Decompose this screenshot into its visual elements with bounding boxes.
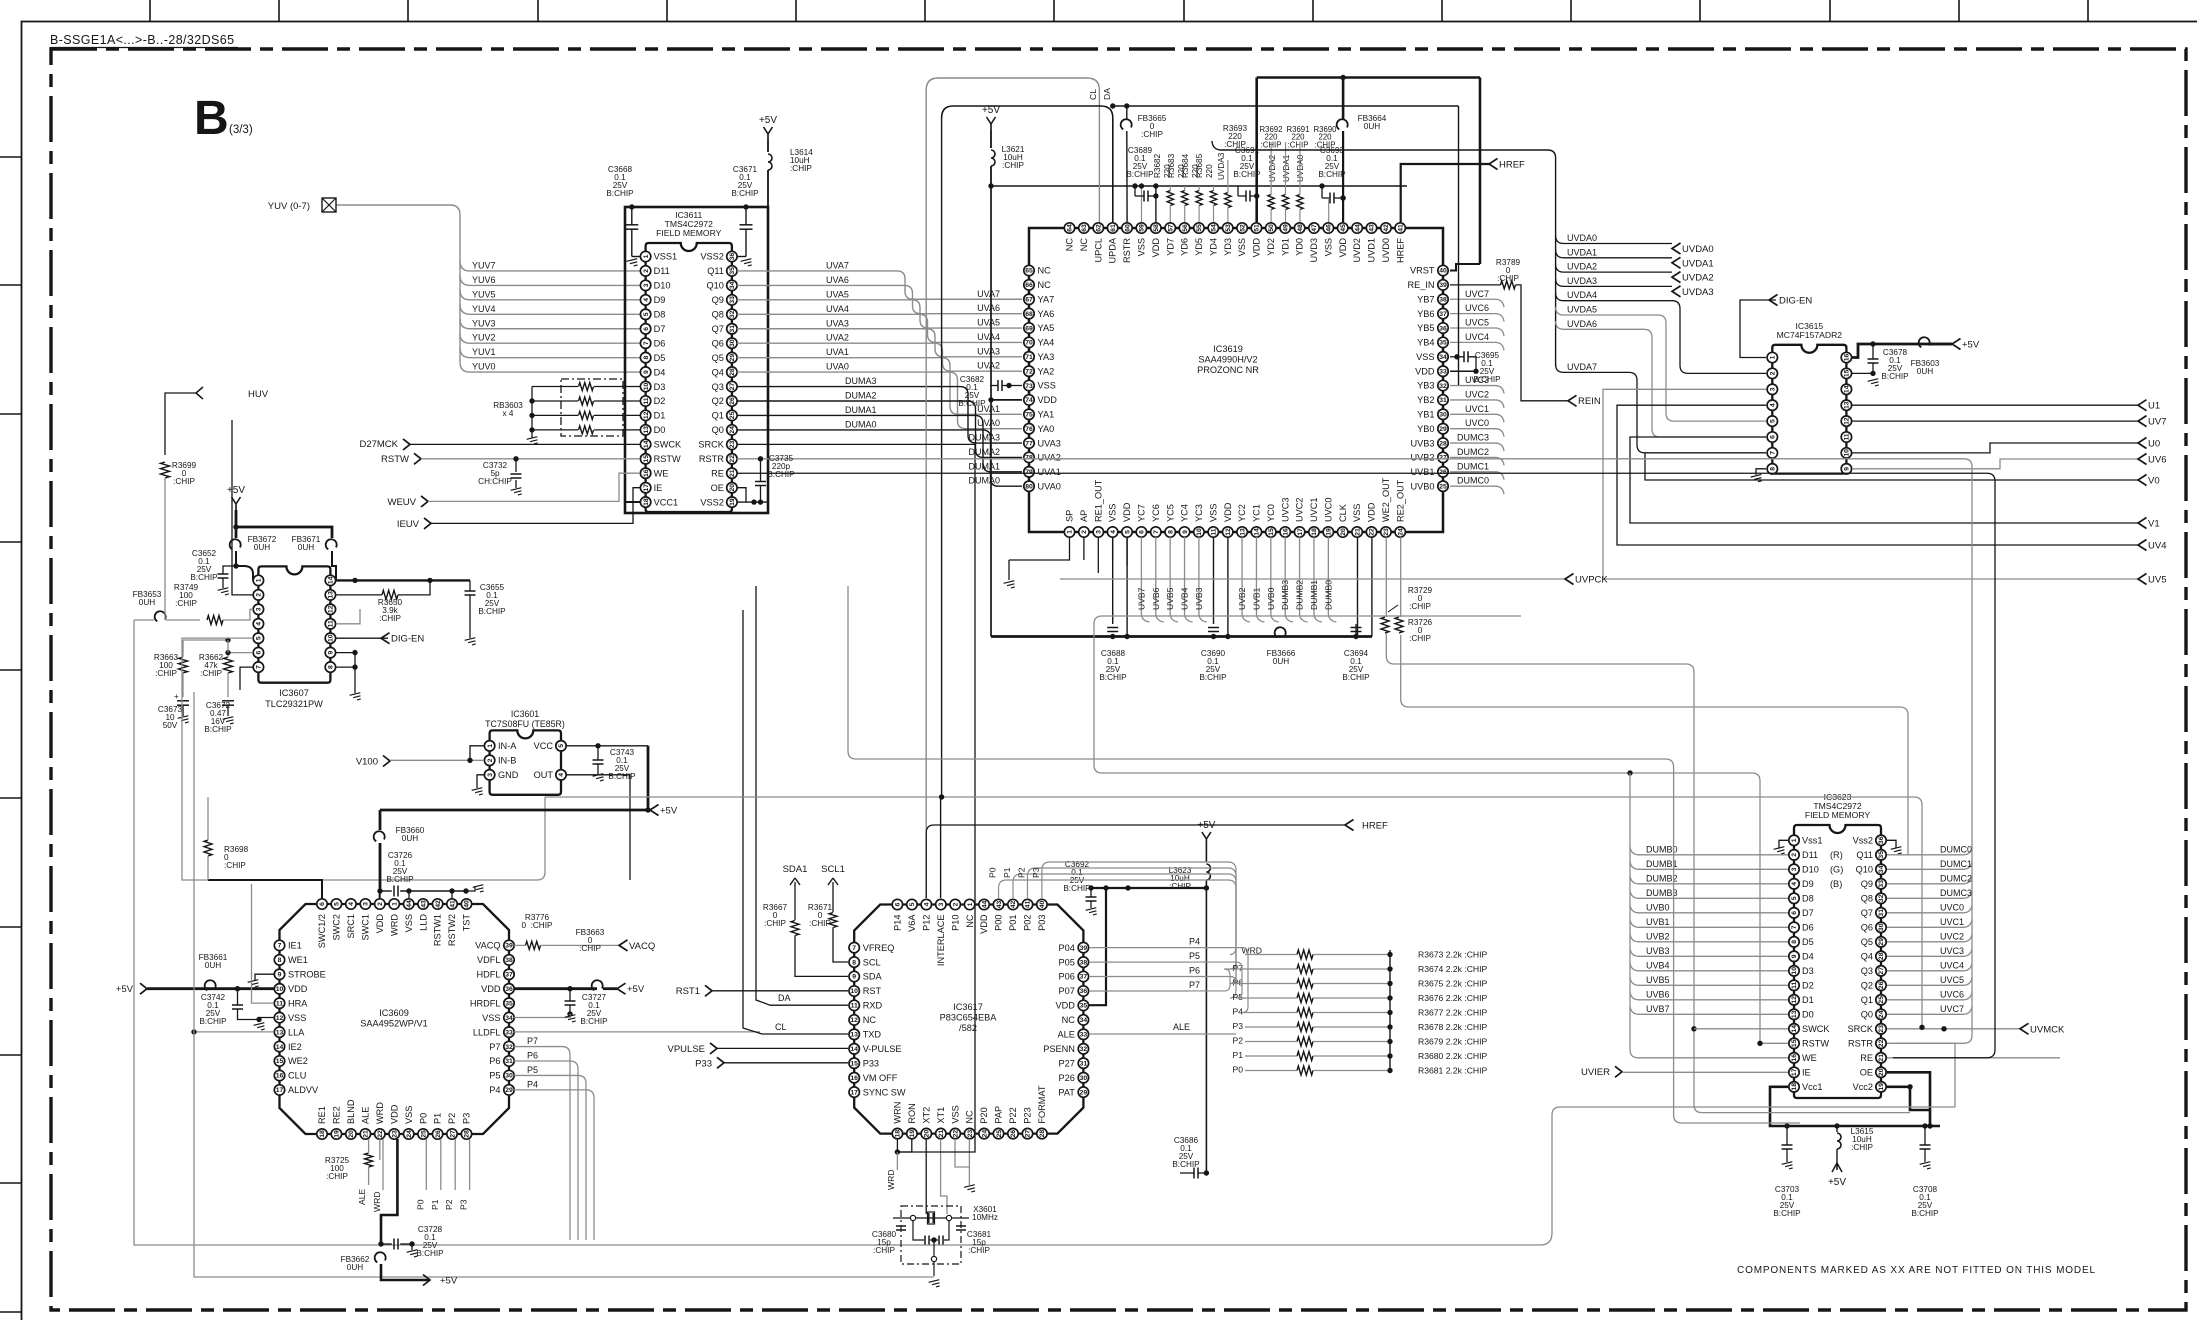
svg-text:P6: P6 — [527, 1051, 538, 1061]
svg-text:23: 23 — [1878, 1025, 1885, 1033]
svg-text:UVA7: UVA7 — [826, 260, 849, 270]
svg-text:70: 70 — [1025, 340, 1033, 347]
svg-text:3: 3 — [643, 283, 650, 287]
svg-text:33: 33 — [505, 1029, 513, 1036]
svg-text:DUMB0: DUMB0 — [1323, 580, 1333, 610]
ground IC3619 pins 1-3 — [1009, 537, 1127, 580]
svg-text:NC: NC — [863, 1015, 877, 1025]
svg-text:4: 4 — [924, 902, 931, 906]
wire OUT — [566, 775, 630, 866]
svg-text:AP: AP — [1079, 510, 1089, 522]
svg-text:UVDA3: UVDA3 — [1682, 287, 1714, 298]
resistor R3690 220 — [1296, 125, 1337, 222]
svg-text:D2: D2 — [654, 396, 666, 406]
capacitor C3728 — [381, 1225, 444, 1258]
svg-text:65: 65 — [1025, 268, 1033, 275]
svg-text:UVC4: UVC4 — [1465, 332, 1489, 342]
capacitor C3694 — [1342, 624, 1370, 682]
svg-text:1: 1 — [643, 254, 650, 258]
svg-text:B:CHIP: B:CHIP — [1773, 1209, 1801, 1218]
svg-text:49: 49 — [1282, 224, 1289, 232]
resistor R3684 220 — [1181, 153, 1202, 222]
svg-text:UVDA0: UVDA0 — [1682, 244, 1714, 255]
svg-text:220: 220 — [1205, 164, 1214, 178]
svg-text:35: 35 — [1878, 851, 1885, 859]
ground IC3615 pin8 — [1756, 469, 1766, 475]
svg-text:P2: P2 — [447, 1113, 457, 1124]
svg-text:UVC2: UVC2 — [1465, 389, 1489, 399]
svg-text:DUMC0: DUMC0 — [1457, 476, 1489, 486]
svg-text::CHIP: :CHIP — [1141, 130, 1163, 139]
svg-text:3: 3 — [1791, 867, 1798, 871]
svg-text::CHIP: :CHIP — [1409, 634, 1431, 643]
svg-text:RE2_OUT: RE2_OUT — [1395, 479, 1405, 522]
IC IC3615 MC74F157ADR2 — [1767, 321, 1852, 474]
svg-text:DUMA0: DUMA0 — [845, 419, 877, 429]
svg-text:55: 55 — [1196, 224, 1203, 232]
svg-text:71: 71 — [1025, 354, 1033, 361]
svg-text:SP: SP — [1065, 510, 1075, 522]
svg-text:B:CHIP: B:CHIP — [1342, 673, 1370, 682]
wire YUV2 — [460, 333, 640, 344]
wire UVDA0 — [1556, 233, 1714, 255]
wire DUMA1 — [737, 405, 1022, 472]
svg-text:P05: P05 — [1059, 957, 1075, 967]
svg-text:YUV1: YUV1 — [472, 347, 496, 357]
svg-text:P5: P5 — [1189, 951, 1200, 961]
svg-text:B:CHIP: B:CHIP — [190, 573, 218, 582]
wire DUMC0 from IC3623 — [1887, 844, 1972, 855]
capacitor C3681 — [956, 1226, 992, 1255]
svg-text:26: 26 — [435, 1130, 442, 1138]
svg-text:23: 23 — [967, 1130, 974, 1138]
svg-text:UVC6: UVC6 — [1465, 303, 1489, 313]
capacitor C3743 — [566, 743, 648, 781]
svg-text:37: 37 — [505, 972, 513, 979]
wire UVDA bus vertical — [1212, 141, 1556, 366]
svg-text:SWC1/2: SWC1/2 — [317, 914, 327, 948]
svg-text:UVD3: UVD3 — [1309, 238, 1319, 263]
svg-text::CHIP: :CHIP — [968, 1246, 990, 1255]
ground — [565, 1015, 577, 1024]
svg-text:ALE: ALE — [357, 1188, 367, 1205]
svg-text:0UH: 0UH — [139, 598, 155, 607]
svg-text:41: 41 — [1025, 901, 1032, 909]
svg-text:VDD: VDD — [1151, 238, 1161, 258]
svg-text:HDFL: HDFL — [477, 970, 501, 980]
svg-text:30: 30 — [1080, 1075, 1088, 1082]
wire Vcc2 — [1887, 1084, 1913, 1100]
svg-text:P07: P07 — [1059, 986, 1075, 996]
svg-text:RE: RE — [1860, 1053, 1873, 1063]
wire UV4 — [1617, 405, 2166, 551]
svg-text:DUMB0: DUMB0 — [1646, 844, 1678, 854]
svg-text:11: 11 — [1791, 981, 1798, 988]
svg-text:TC7S08FU (TE85R): TC7S08FU (TE85R) — [485, 719, 565, 729]
svg-text:RSTW: RSTW — [1802, 1039, 1829, 1049]
svg-text:UVC1: UVC1 — [1940, 917, 1964, 927]
svg-text:B:CHIP: B:CHIP — [767, 470, 795, 479]
svg-text:DUMB2: DUMB2 — [1295, 580, 1305, 610]
svg-text:YB4: YB4 — [1417, 338, 1434, 348]
svg-text:DUMA2: DUMA2 — [845, 391, 877, 401]
wire P00-P03 loops — [988, 862, 1236, 998]
wire left long vertical — [134, 620, 1540, 1245]
svg-text:YUV6: YUV6 — [472, 275, 496, 285]
svg-text:67: 67 — [1025, 297, 1033, 304]
svg-text:XT1: XT1 — [936, 1107, 946, 1124]
svg-text:6: 6 — [1770, 435, 1777, 439]
wire UVC5 from IC3623 — [1887, 975, 1972, 986]
svg-text:0UH: 0UH — [1273, 657, 1289, 666]
svg-text:TST: TST — [462, 914, 472, 932]
svg-text:B:CHIP: B:CHIP — [1473, 375, 1501, 384]
svg-text:42: 42 — [1383, 224, 1390, 232]
svg-text:UVMCK: UVMCK — [2030, 1024, 2065, 1035]
svg-text:72: 72 — [1025, 368, 1033, 375]
svg-text:Vcc1: Vcc1 — [1802, 1082, 1822, 1092]
svg-text:CLK: CLK — [1338, 503, 1348, 522]
svg-text:45: 45 — [1340, 224, 1347, 232]
wire DUMC0 — [1450, 476, 1504, 495]
svg-text:VSS: VSS — [404, 914, 414, 932]
svg-text:UVDA0: UVDA0 — [1567, 233, 1597, 243]
wire UVB2 into IC3623 — [1630, 931, 1788, 942]
svg-text::CHIP: :CHIP — [326, 1172, 348, 1181]
svg-text:UVDA2: UVDA2 — [1268, 154, 1277, 182]
capacitor C3655 — [465, 580, 507, 638]
inductor L3615 — [1837, 1126, 1874, 1163]
svg-text:VACQ: VACQ — [475, 941, 500, 951]
wire UVC4 from IC3623 — [1887, 960, 1972, 971]
svg-text:14: 14 — [1254, 528, 1261, 536]
svg-text:33: 33 — [1439, 368, 1447, 375]
wire U1 — [1852, 400, 2160, 412]
svg-text:5: 5 — [256, 636, 263, 640]
svg-text:YA2: YA2 — [1038, 366, 1055, 376]
svg-text:UPDA: UPDA — [1108, 237, 1118, 263]
wire YUV0 — [460, 362, 640, 373]
svg-text:B:CHIP: B:CHIP — [1099, 673, 1127, 682]
wire DUMC2 — [1450, 447, 1504, 466]
svg-text:39: 39 — [505, 943, 513, 950]
svg-text:YC0: YC0 — [1266, 504, 1276, 522]
svg-text:47: 47 — [1311, 224, 1318, 232]
svg-text:20: 20 — [1878, 1068, 1885, 1076]
svg-text:15: 15 — [276, 1058, 284, 1065]
svg-text:36: 36 — [729, 253, 736, 261]
svg-text:80: 80 — [1025, 483, 1033, 490]
svg-text:SCL: SCL — [863, 957, 881, 967]
resistor R3682 220 — [1153, 153, 1174, 222]
svg-text:UVB0: UVB0 — [1646, 902, 1670, 912]
svg-text:YA7: YA7 — [1038, 294, 1055, 304]
svg-text:7: 7 — [852, 945, 856, 952]
svg-text:P04: P04 — [1059, 943, 1075, 953]
svg-text:COMPONENTS MARKED AS XX ARE NO: COMPONENTS MARKED AS XX ARE NOT FITTED O… — [1737, 1265, 2096, 1276]
svg-text:YUV0: YUV0 — [472, 362, 496, 372]
capacitor C3742 — [199, 989, 274, 1026]
svg-text:1: 1 — [487, 744, 494, 748]
svg-text:10: 10 — [1844, 449, 1851, 457]
svg-text:60: 60 — [1124, 224, 1131, 232]
svg-text:14: 14 — [1844, 385, 1851, 393]
wire WE2_OUT channel — [1386, 633, 1910, 1113]
svg-text:WE2: WE2 — [288, 1056, 308, 1066]
IC IC3623 TMS4C2972 — [1789, 792, 1886, 1098]
svg-text:IN-A: IN-A — [498, 741, 517, 751]
svg-text:15: 15 — [850, 1060, 858, 1067]
svg-text:UVA2: UVA2 — [1038, 453, 1061, 463]
svg-text:V0: V0 — [2148, 476, 2160, 487]
svg-text:DIG-EN: DIG-EN — [1779, 296, 1812, 307]
ground — [626, 259, 638, 268]
svg-text:Q10: Q10 — [707, 281, 724, 291]
svg-text:31: 31 — [1439, 397, 1447, 404]
resistor R3663 — [154, 640, 188, 697]
svg-text:17: 17 — [850, 1089, 858, 1096]
svg-text:VSS: VSS — [404, 1106, 414, 1124]
svg-text:WEUV: WEUV — [388, 497, 417, 508]
wire pins 8/9 — [336, 650, 358, 693]
ground — [929, 1280, 941, 1289]
svg-text:UVC2: UVC2 — [1940, 931, 1964, 941]
svg-text:P4: P4 — [1189, 937, 1200, 947]
svg-text:26: 26 — [1878, 981, 1885, 989]
ground — [472, 788, 484, 797]
svg-text:75: 75 — [1025, 412, 1033, 419]
wire DUMB0 stub — [1323, 537, 1336, 622]
svg-text:P0: P0 — [1232, 1065, 1243, 1075]
wire VDD pin33 — [1450, 370, 1476, 372]
wire UVDA3 — [1556, 276, 1714, 298]
wire vcc loop right — [1910, 1100, 1930, 1110]
ferrite bead FB3665 — [1121, 106, 1167, 222]
+5V rail arrow — [380, 805, 678, 817]
svg-text:R3681 2.2k :CHIP: R3681 2.2k :CHIP — [1418, 1066, 1488, 1076]
resistor R3691 220 — [1282, 125, 1309, 222]
svg-text:SAA4952WP/V1: SAA4952WP/V1 — [360, 1019, 427, 1029]
wire YUV bus vertical — [336, 205, 460, 362]
wire UVC5 — [1450, 318, 1504, 337]
svg-text:25: 25 — [1439, 483, 1447, 490]
wire Vcc1 rail — [1770, 1087, 1940, 1129]
svg-text:Q3: Q3 — [1861, 966, 1873, 976]
svg-text:UVDA1: UVDA1 — [1682, 258, 1714, 269]
wire VDD pin23 down — [378, 1139, 397, 1247]
svg-text:6: 6 — [319, 902, 326, 906]
wire YUV7 — [460, 260, 640, 271]
svg-text:P23: P23 — [1023, 1107, 1033, 1123]
svg-text:5: 5 — [1124, 530, 1131, 534]
wire net797 long horizontal — [545, 794, 1925, 1030]
svg-text:DUMA2: DUMA2 — [968, 447, 1000, 457]
wire IC3609 P7 — [514, 1036, 570, 1240]
svg-text:U0: U0 — [2148, 439, 2160, 450]
svg-text:RSTR: RSTR — [1122, 238, 1132, 263]
wire bottom stubs IC3609 — [379, 1139, 381, 1160]
svg-text:UVC7: UVC7 — [1940, 1004, 1964, 1014]
svg-text:UVB5: UVB5 — [1646, 975, 1670, 985]
wire UVA6 — [737, 275, 1022, 314]
wire WE IC3623 — [1630, 773, 1788, 1058]
svg-text:Q9: Q9 — [712, 295, 724, 305]
svg-text:D0: D0 — [1802, 1010, 1814, 1020]
svg-text:P22: P22 — [1008, 1107, 1018, 1123]
svg-text:14: 14 — [643, 440, 650, 448]
svg-text:IE: IE — [1802, 1068, 1811, 1078]
wire DUMB1 stub — [1309, 537, 1322, 622]
svg-text:D8: D8 — [1802, 894, 1814, 904]
svg-text:6: 6 — [643, 327, 650, 331]
svg-text:IN-B: IN-B — [498, 756, 516, 766]
svg-text:FIELD MEMORY: FIELD MEMORY — [656, 228, 722, 238]
svg-text:27: 27 — [1025, 1130, 1032, 1138]
svg-text:10: 10 — [1196, 528, 1203, 536]
svg-text::CHIP: :CHIP — [790, 164, 812, 173]
svg-text:D9: D9 — [1802, 879, 1814, 889]
svg-text:24: 24 — [1878, 1010, 1885, 1018]
svg-text:27: 27 — [1878, 967, 1885, 975]
wire DUMA2 — [737, 391, 1022, 458]
svg-text:B:CHIP: B:CHIP — [1881, 372, 1909, 381]
svg-text:36: 36 — [505, 986, 513, 993]
capacitor C3686 — [1172, 1136, 1209, 1179]
wire SWCK IC3623 — [1694, 1028, 1788, 1030]
resistor pack RB3603 x4 — [493, 379, 640, 438]
svg-text:P6: P6 — [489, 1056, 500, 1066]
svg-text:50: 50 — [1268, 224, 1275, 232]
capacitor C3680 — [872, 1226, 906, 1255]
ground — [218, 588, 230, 597]
svg-text:0UH: 0UH — [298, 543, 314, 552]
svg-text:32: 32 — [1080, 1046, 1088, 1053]
svg-text:V1: V1 — [2148, 519, 2160, 530]
resistor R3789 + REIN — [1450, 258, 1601, 407]
svg-text:UVD2: UVD2 — [1352, 238, 1362, 263]
svg-text:64: 64 — [1067, 224, 1074, 232]
svg-text:VSS: VSS — [1352, 504, 1362, 522]
svg-text:D2: D2 — [1802, 981, 1814, 991]
ground — [1868, 379, 1880, 388]
wire UVDA5 — [1556, 305, 1766, 422]
svg-text:YC6: YC6 — [1151, 504, 1161, 522]
svg-text:9: 9 — [278, 972, 282, 979]
svg-text:12: 12 — [1844, 417, 1851, 425]
svg-text:61: 61 — [1110, 224, 1117, 232]
capacitor C3672 — [204, 701, 234, 734]
wire UVC2 from IC3623 — [1887, 931, 1972, 942]
svg-text:15: 15 — [1791, 1039, 1798, 1047]
svg-text:Q10: Q10 — [1856, 865, 1873, 875]
svg-text:UVA1: UVA1 — [1038, 467, 1061, 477]
svg-text:29: 29 — [729, 354, 736, 362]
svg-text:P1: P1 — [1002, 867, 1012, 878]
svg-text:YA0: YA0 — [1038, 424, 1055, 434]
svg-text:B:CHIP: B:CHIP — [958, 399, 986, 408]
capacitor C3692 — [1063, 860, 1096, 908]
svg-text:IC3619: IC3619 — [1213, 344, 1243, 354]
svg-text:20: 20 — [348, 1130, 355, 1138]
svg-text:P0: P0 — [988, 867, 998, 878]
svg-text:B:CHIP: B:CHIP — [478, 607, 506, 616]
frame ruler ticks left — [0, 157, 21, 1312]
svg-text:12: 12 — [1791, 996, 1798, 1004]
svg-text:Q3: Q3 — [712, 382, 724, 392]
svg-text:NC: NC — [1038, 280, 1052, 290]
svg-text:RXD: RXD — [863, 1001, 883, 1011]
node V100 — [356, 746, 484, 768]
svg-text:WRD: WRD — [886, 1169, 896, 1190]
svg-text:29: 29 — [505, 1087, 513, 1094]
svg-text:UVA0: UVA0 — [977, 418, 1000, 428]
wire UVB4 into IC3623 — [1630, 960, 1788, 971]
ferrite bead FB3666 — [1267, 627, 1296, 666]
wire DUMC1 — [1450, 461, 1504, 480]
wire channel 848 — [848, 586, 1800, 1123]
svg-text:UVA6: UVA6 — [977, 303, 1000, 313]
svg-text:+5V: +5V — [227, 485, 245, 496]
svg-text:SRCK: SRCK — [1847, 1024, 1873, 1034]
wire OE loop — [1887, 1072, 1933, 1128]
wire UVB7 into IC3623 — [1630, 1004, 1788, 1015]
svg-text:31: 31 — [1878, 909, 1885, 917]
wire YUV6 — [460, 275, 640, 286]
wire RE right — [1887, 1057, 2060, 1059]
inductor L3623 — [1169, 845, 1211, 1173]
wire VCC to +5V rail — [647, 746, 650, 810]
ground — [1920, 1162, 1932, 1171]
svg-text:UVA6: UVA6 — [826, 275, 849, 285]
wire WRN pin18 down — [886, 1139, 912, 1190]
wire RSTR right — [1887, 1043, 1955, 1107]
svg-text:56: 56 — [1182, 224, 1189, 232]
svg-text:5: 5 — [1791, 896, 1798, 900]
ground — [511, 488, 523, 497]
svg-text:PROZONC NR: PROZONC NR — [1197, 365, 1259, 375]
svg-text:52: 52 — [1239, 224, 1246, 232]
wire UVA0 — [737, 362, 1022, 429]
svg-text:UVDA3: UVDA3 — [1567, 276, 1597, 286]
ferrite bead FB3662 — [341, 1252, 458, 1286]
svg-text:24: 24 — [981, 1130, 988, 1138]
wire UVB4 stub — [1180, 537, 1193, 622]
svg-text:13: 13 — [276, 1029, 284, 1036]
svg-text:VDFL: VDFL — [477, 955, 501, 965]
svg-text:33: 33 — [1878, 880, 1885, 888]
capacitor C3673 electrolytic — [158, 692, 189, 730]
svg-text:MC74F157ADR2: MC74F157ADR2 — [1777, 330, 1843, 340]
svg-text:RE2: RE2 — [332, 1106, 342, 1124]
wire channel 1094 — [1094, 616, 1760, 1043]
wire YUV1 — [460, 347, 640, 358]
svg-text:SRCK: SRCK — [698, 440, 724, 450]
svg-text:UVB6: UVB6 — [1151, 587, 1161, 610]
svg-text:Q2: Q2 — [1861, 981, 1873, 991]
svg-text:VDD: VDD — [481, 984, 501, 994]
svg-text:UVA4: UVA4 — [977, 332, 1000, 342]
svg-text:YB5: YB5 — [1417, 323, 1434, 333]
svg-text:28: 28 — [1039, 1130, 1046, 1138]
svg-text:VDD: VDD — [979, 914, 989, 934]
wire UVB0 stub — [1266, 537, 1279, 622]
wire RSTW IC3623 — [1757, 1041, 1788, 1046]
wire UVC6 — [1450, 303, 1504, 322]
svg-text:YC4: YC4 — [1180, 504, 1190, 522]
svg-text:VSS: VSS — [1237, 238, 1247, 256]
svg-text:UVD0: UVD0 — [1381, 238, 1391, 263]
svg-text:UVDA1: UVDA1 — [1282, 154, 1291, 182]
